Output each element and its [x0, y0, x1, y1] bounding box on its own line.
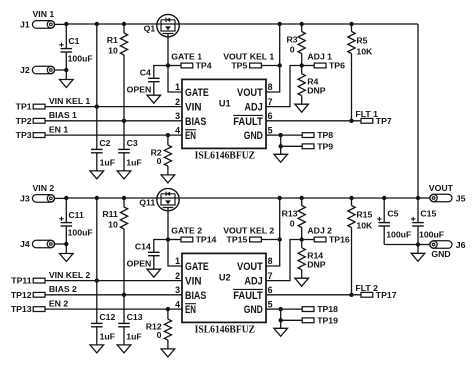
transistor Q1 (P-MOSFET pass element) [157, 14, 179, 36]
label TP2 [16, 116, 32, 126]
svg-text:TP2: TP2 [16, 116, 32, 126]
svg-text:C2: C2 [99, 138, 110, 148]
resistor R11 10 [102, 198, 127, 229]
capacitor C14 OPEN [135, 240, 168, 270]
label Q1 [144, 24, 156, 34]
label TP6 [329, 61, 345, 71]
svg-text:10: 10 [108, 219, 118, 229]
svg-text:VIN: VIN [185, 102, 202, 114]
wire VIN rail [66, 197, 418, 199]
resistor R3 0 (upper divider) [286, 24, 305, 66]
svg-text:R3: R3 [286, 34, 297, 44]
IC U1 ISL6146BFUZ [182, 79, 266, 148]
ground below C2 [90, 171, 104, 179]
svg-text:BIAS 2: BIAS 2 [49, 284, 77, 294]
net label VOUT [429, 183, 454, 193]
test point TP3 [33, 133, 182, 138]
svg-text:R1: R1 [107, 35, 118, 45]
capacitor C1 100uF [59, 24, 92, 70]
label TP9 [317, 141, 333, 151]
svg-text:R15: R15 [356, 209, 372, 219]
wire gate lead down [167, 37, 169, 66]
junction VIN rail / R [122, 196, 126, 200]
svg-text:BIAS 1: BIAS 1 [49, 110, 77, 120]
svg-text:BIAS: BIAS [185, 290, 206, 302]
svg-text:OPEN: OPEN [127, 85, 152, 95]
svg-text:U2: U2 [219, 272, 231, 282]
test point TP19 [281, 318, 314, 323]
svg-text:C3: C3 [127, 138, 138, 148]
svg-text:0: 0 [290, 45, 295, 55]
junction FAULT / pull-up [349, 119, 353, 123]
wire VIN-KEL sense vertical [96, 24, 98, 107]
test point TP7 [361, 118, 373, 123]
transistor Q11 (P-MOSFET pass element) [157, 188, 179, 210]
resistor R2 0 [151, 135, 172, 175]
wire pin 6 FAULT line [266, 120, 361, 122]
svg-text:J4: J4 [20, 239, 30, 249]
ground below C3 [117, 171, 131, 179]
junction gate node [166, 63, 170, 67]
test point TP17 [361, 292, 373, 297]
value label OPEN [127, 259, 152, 269]
label Q11 [139, 198, 155, 208]
svg-text:TP16: TP16 [329, 235, 350, 245]
junction BIAS line [122, 119, 126, 123]
junction at C11 top [64, 196, 68, 200]
net label VOUT KEL 1 [223, 51, 274, 61]
label J4 [20, 239, 30, 249]
svg-text:1uF: 1uF [126, 331, 141, 341]
net label ADJ 2 [307, 226, 332, 236]
wire R to BIAS line [123, 229, 125, 295]
svg-text:TP9: TP9 [317, 141, 333, 151]
junction at J2 wire [64, 242, 68, 246]
junction VIN rail / sense [95, 22, 99, 26]
svg-text:GND: GND [244, 130, 263, 142]
svg-text:DNP: DNP [307, 86, 326, 96]
junction rail / pin8 riser [278, 196, 282, 200]
value label OPEN [127, 85, 152, 95]
svg-text:BIAS: BIAS [185, 116, 206, 128]
IC U2 ISL6146BFUZ [182, 253, 266, 322]
junction GND / TP [279, 307, 283, 311]
junction sense / VIN-KEL line [95, 104, 99, 108]
label TP7 [376, 116, 392, 126]
capacitor C12 1uF [91, 281, 116, 345]
svg-text:10K: 10K [356, 46, 373, 56]
junction at J2 wire [64, 68, 68, 72]
wire gate node to pin 1 [168, 240, 182, 267]
junction rail / pull-up [349, 196, 353, 200]
ground below C1 [60, 70, 74, 88]
resistor R13 0 (upper divider) [282, 198, 306, 240]
test point TP16 [314, 237, 326, 242]
svg-text:R11: R11 [102, 209, 118, 219]
resistor R5 10K (FAULT pull-up) [348, 24, 373, 121]
pin numbers 1-4 [175, 256, 180, 309]
test point TP6 [314, 63, 326, 68]
svg-text:ISL6146BFUZ: ISL6146BFUZ [195, 324, 256, 336]
net label FLT 2 [355, 283, 378, 293]
svg-text:TP18: TP18 [317, 304, 338, 314]
net label VOUT KEL 2 [223, 225, 274, 235]
svg-text:TP5: TP5 [231, 61, 247, 71]
svg-text:ADJ: ADJ [244, 102, 262, 114]
svg-text:TP6: TP6 [329, 61, 345, 71]
test point TP4 [168, 63, 193, 68]
svg-text:TP15: TP15 [227, 235, 248, 245]
svg-text:DNP: DNP [307, 260, 326, 270]
test point TP2 [33, 118, 182, 123]
svg-text:C13: C13 [127, 312, 143, 322]
label J3 [20, 194, 30, 204]
svg-text:TP8: TP8 [317, 130, 333, 140]
net label VIN 2 [33, 183, 55, 193]
svg-text:C1: C1 [68, 36, 79, 46]
svg-text:Q11: Q11 [139, 198, 155, 208]
pin numbers 5-8 [268, 82, 273, 135]
test point TP18 [281, 307, 314, 312]
wire pin 8 VOUT to rail [266, 198, 280, 266]
svg-text:TP17: TP17 [376, 290, 397, 300]
junction rail / pull-up [349, 22, 353, 26]
svg-text:2: 2 [175, 97, 180, 107]
part number label ISL6146BFUZ for U1 [195, 150, 256, 162]
svg-text:EN 2: EN 2 [49, 298, 68, 308]
svg-text:VIN 1: VIN 1 [33, 9, 55, 19]
svg-text:C14: C14 [135, 241, 151, 251]
wire pin 5 GND [266, 134, 281, 136]
svg-text:R13: R13 [282, 208, 298, 218]
junction at C1 top [64, 22, 68, 26]
svg-text:ADJ: ADJ [244, 276, 262, 288]
svg-text:3: 3 [175, 111, 180, 121]
capacitor C13 1uF [118, 295, 143, 345]
label TP18 [317, 304, 338, 314]
test point TP5 [250, 63, 280, 68]
wire ADJ node to test point [302, 65, 315, 67]
ground at IC GND pin [274, 146, 288, 162]
svg-text:TP11: TP11 [11, 276, 31, 286]
wire pin 7 ADJ up to divider [266, 66, 302, 107]
net label GATE 2 [171, 225, 202, 235]
svg-text:J5: J5 [456, 193, 466, 203]
label TP5 [231, 61, 247, 71]
junction ADJ node [300, 237, 304, 241]
svg-text:EN: EN [185, 304, 196, 316]
svg-text:TP3: TP3 [16, 130, 32, 140]
svg-text:5: 5 [268, 125, 273, 135]
svg-text:10K: 10K [356, 220, 373, 230]
svg-text:0: 0 [157, 156, 162, 166]
label TP1 [16, 102, 32, 112]
ground at IC GND pin [274, 320, 288, 336]
svg-text:100uF: 100uF [386, 230, 411, 240]
svg-text:1uF: 1uF [100, 331, 115, 341]
capacitor C11 100uF [59, 198, 92, 244]
ground below C14 [147, 269, 161, 277]
svg-text:Q1: Q1 [144, 24, 156, 34]
net label VIN KEL 1 [49, 96, 91, 106]
svg-text:J3: J3 [20, 194, 30, 204]
wire GND down [280, 135, 282, 146]
svg-text:OPEN: OPEN [127, 259, 152, 269]
svg-text:EN: EN [185, 130, 196, 142]
svg-text:TP7: TP7 [376, 116, 392, 126]
svg-text:GATE: GATE [185, 261, 209, 273]
svg-text:J2: J2 [20, 65, 30, 75]
svg-text:VOUT: VOUT [429, 183, 454, 193]
ground below R12 [161, 349, 175, 357]
junction GND / TP [279, 133, 283, 137]
svg-text:100uF: 100uF [419, 230, 444, 240]
svg-text:5: 5 [268, 299, 273, 309]
svg-text:C12: C12 [99, 312, 115, 322]
svg-text:C4: C4 [140, 67, 151, 77]
wire VIN-KEL sense vertical [96, 198, 98, 281]
label TP4 [196, 60, 212, 70]
svg-text:FLT 1: FLT 1 [355, 109, 378, 119]
label TP14 [196, 234, 217, 244]
net label VIN 1 [33, 9, 55, 19]
capacitor C3 1uF [118, 121, 142, 171]
svg-text:4: 4 [175, 125, 180, 135]
svg-text:100uF: 100uF [68, 54, 93, 64]
svg-text:C5: C5 [387, 209, 398, 219]
junction FAULT / pull-up [349, 293, 353, 297]
junction sense / VIN-KEL line [95, 278, 99, 282]
ground below R2 [161, 175, 175, 183]
svg-text:VOUT: VOUT [237, 87, 263, 99]
wire main VOUT bus (channel 1 to output) [417, 24, 419, 223]
svg-text:FAULT: FAULT [233, 290, 263, 302]
svg-text:FAULT: FAULT [233, 116, 263, 128]
svg-text:VIN 2: VIN 2 [33, 183, 55, 193]
connector J6 (GND jack) [418, 241, 452, 249]
junction EN line / R [166, 307, 170, 311]
ground below C13 [117, 345, 131, 353]
connector J2 (return jack) [32, 66, 66, 74]
junction GND / TP lower [279, 144, 283, 148]
test point TP11 [33, 278, 182, 283]
wire GND down [280, 309, 282, 320]
junction VIN rail / sense [95, 196, 99, 200]
svg-text:TP12: TP12 [11, 290, 32, 300]
label TP11 [11, 276, 31, 286]
label TP16 [329, 235, 350, 245]
ground below C4 [147, 95, 161, 103]
svg-text:FLT 2: FLT 2 [355, 283, 378, 293]
junction rail / R divider [300, 22, 304, 26]
label TP19 [317, 315, 338, 325]
label J1 [20, 20, 30, 30]
wire output ground bus [384, 244, 418, 246]
svg-text:GND: GND [244, 304, 263, 316]
svg-text:0: 0 [157, 330, 162, 340]
net label FLT 1 [355, 109, 378, 119]
svg-text:C11: C11 [68, 210, 84, 220]
svg-text:1uF: 1uF [100, 157, 115, 167]
resistor R4 DNP (lower divider) [298, 66, 326, 105]
svg-text:1: 1 [175, 82, 180, 92]
svg-text:C15: C15 [420, 209, 436, 219]
part number label ISL6146BFUZ for U2 [195, 324, 256, 336]
net label ADJ 1 [307, 52, 332, 62]
junction BIAS line [122, 293, 126, 297]
capacitor C5 100uF (output) [377, 198, 411, 245]
svg-text:ISL6146BFUZ: ISL6146BFUZ [195, 150, 256, 162]
connector J4 (return jack) [32, 240, 66, 248]
svg-text:100uF: 100uF [68, 228, 93, 238]
capacitor C2 1uF [91, 107, 115, 171]
svg-text:TP13: TP13 [11, 304, 32, 314]
net label VIN KEL 2 [49, 270, 91, 280]
svg-text:TP1: TP1 [16, 102, 32, 112]
net label EN 1 [49, 124, 68, 134]
label J6 [456, 240, 466, 250]
svg-text:VIN KEL 2: VIN KEL 2 [49, 270, 91, 280]
net label EN 2 [49, 298, 68, 308]
resistor R15 10K (FAULT pull-up) [348, 198, 373, 295]
svg-text:U1: U1 [219, 98, 231, 108]
svg-text:1: 1 [175, 256, 180, 266]
label TP13 [11, 304, 32, 314]
ground below C12 [90, 345, 104, 353]
ground below R14 [295, 278, 309, 286]
wire pin 6 FAULT line [266, 294, 361, 296]
capacitor C4 OPEN [140, 66, 168, 96]
net label BIAS 2 [49, 284, 77, 294]
svg-text:VIN KEL 1: VIN KEL 1 [49, 96, 91, 106]
net label GATE 1 [171, 51, 202, 61]
svg-text:TP4: TP4 [196, 60, 212, 70]
junction GND / TP lower [279, 318, 283, 322]
junction VOUT-KEL tap [278, 237, 282, 241]
svg-text:TP14: TP14 [196, 234, 217, 244]
wire pin 5 GND [266, 308, 281, 310]
wire VIN rail [66, 23, 418, 25]
svg-text:J1: J1 [20, 20, 30, 30]
svg-text:0: 0 [290, 219, 295, 229]
svg-text:6: 6 [268, 285, 273, 295]
label TP8 [317, 130, 333, 140]
connector J1 (VIN input jack) [32, 21, 66, 29]
label J2 [20, 65, 30, 75]
test point TP15 [250, 237, 280, 242]
svg-text:VIN: VIN [185, 276, 202, 288]
wire pin 8 VOUT to rail [266, 24, 280, 92]
test point TP14 [168, 237, 193, 242]
test point TP12 [33, 292, 182, 297]
junction EN line / R [166, 133, 170, 137]
svg-text:10: 10 [108, 45, 118, 55]
junction channel 2 rail / C5 [382, 196, 386, 200]
wire pin 7 ADJ up to divider [266, 240, 302, 281]
svg-text:TP19: TP19 [317, 315, 338, 325]
wire ADJ node to test point [302, 239, 315, 241]
resistor R14 DNP (lower divider) [298, 240, 326, 279]
junction ADJ node [300, 63, 304, 67]
test point TP13 [33, 307, 182, 312]
svg-text:8: 8 [268, 256, 273, 266]
label J5 [456, 193, 466, 203]
svg-text:7: 7 [268, 97, 273, 107]
svg-text:3: 3 [175, 285, 180, 295]
svg-text:EN 1: EN 1 [49, 124, 68, 134]
label TP17 [376, 290, 397, 300]
connector J5 (VOUT jack) [418, 194, 452, 202]
svg-text:VOUT: VOUT [237, 261, 263, 273]
svg-text:2: 2 [175, 271, 180, 281]
capacitor C15 100uF (output) [411, 209, 444, 245]
junction ground bus / J6 [416, 242, 420, 246]
wire gate lead down [167, 211, 169, 240]
label TP3 [16, 130, 32, 140]
resistor R12 0 [146, 309, 172, 349]
svg-text:7: 7 [268, 271, 273, 281]
junction VIN rail / R [122, 22, 126, 26]
svg-text:6: 6 [268, 111, 273, 121]
test point TP9 [281, 144, 314, 149]
pin numbers 1-4 [175, 82, 180, 135]
net label BIAS 1 [49, 110, 77, 120]
label TP12 [11, 290, 32, 300]
ground below C11 [60, 244, 74, 262]
svg-text:GND: GND [431, 249, 450, 259]
svg-text:R5: R5 [356, 35, 367, 45]
net label GND [431, 249, 450, 259]
junction rail / R divider [300, 196, 304, 200]
ground at output [411, 245, 425, 262]
resistor R1 10 [107, 24, 128, 55]
test point TP1 [33, 104, 182, 109]
svg-text:1uF: 1uF [126, 157, 141, 167]
junction VOUT-KEL tap [278, 63, 282, 67]
connector J3 (VIN input jack) [32, 195, 66, 203]
pin numbers 5-8 [268, 256, 273, 309]
junction gate node [166, 237, 170, 241]
wire gate node to pin 1 [168, 66, 182, 93]
svg-text:8: 8 [268, 82, 273, 92]
svg-text:4: 4 [175, 299, 180, 309]
junction VOUT bus / channel 2 rail [416, 196, 420, 200]
wire R to BIAS line [123, 55, 125, 121]
test point TP8 [281, 133, 314, 138]
junction rail / pin8 riser [278, 22, 282, 26]
label TP15 [227, 235, 248, 245]
svg-text:GATE: GATE [185, 87, 209, 99]
ground below R4 [295, 104, 309, 112]
svg-text:J6: J6 [456, 240, 466, 250]
